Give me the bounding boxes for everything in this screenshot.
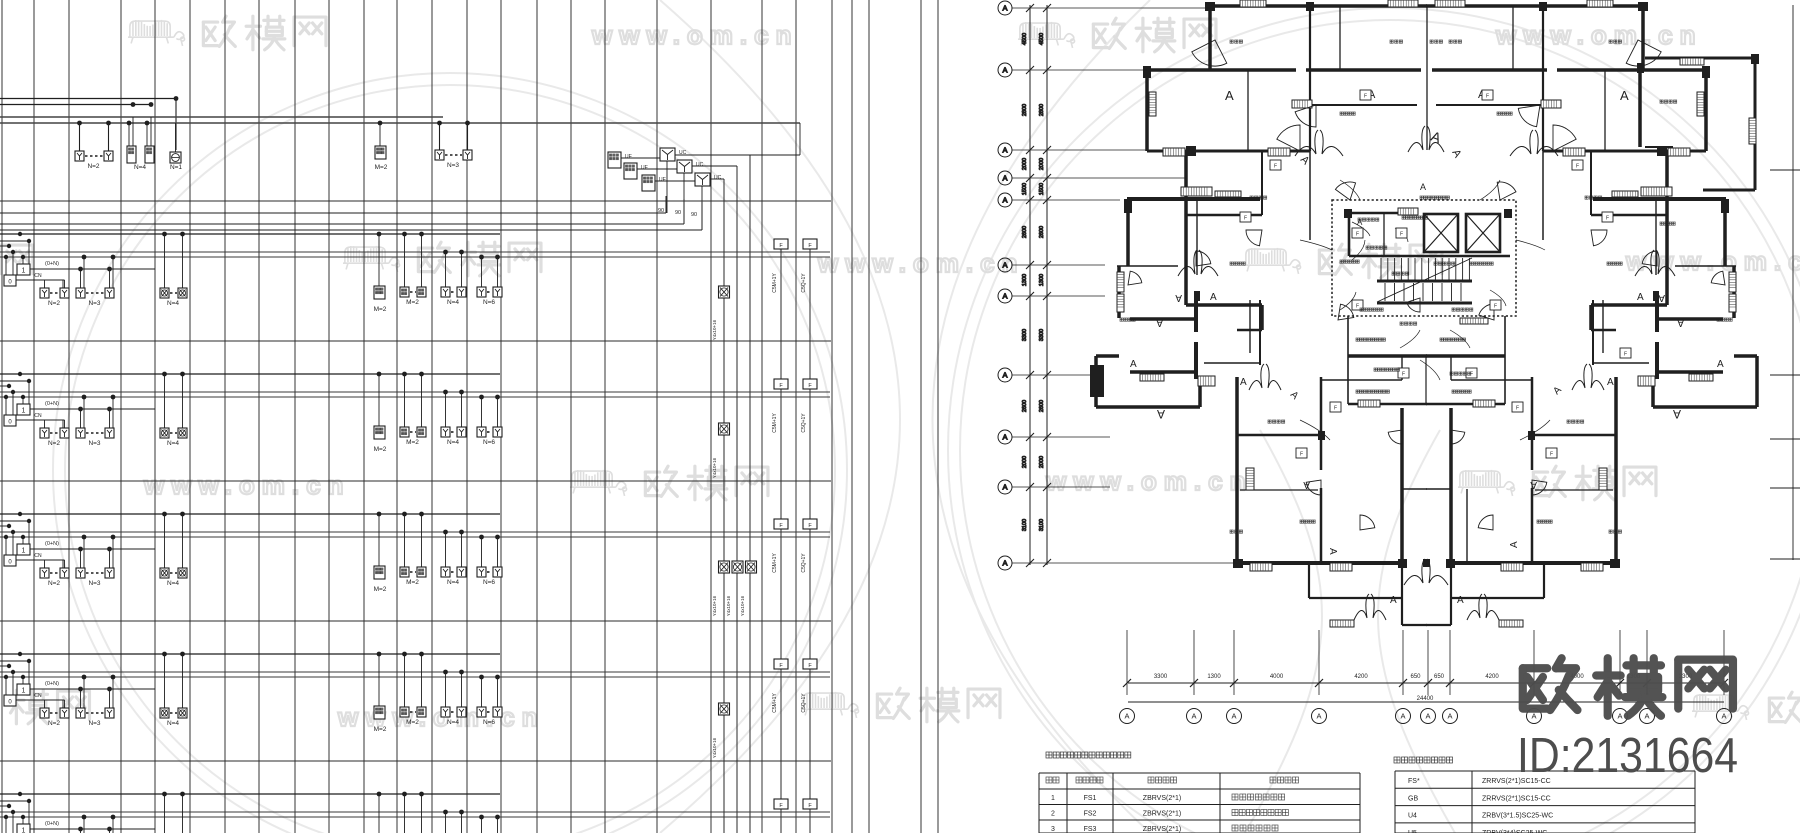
core dashed boundary bbox=[1332, 200, 1516, 316]
svg-text:N=4: N=4 bbox=[134, 164, 146, 171]
svg-text:A: A bbox=[1130, 359, 1137, 370]
svg-text:CN: CN bbox=[34, 693, 42, 699]
watermark circle right bbox=[948, 8, 1800, 838]
svg-text:1300: 1300 bbox=[1039, 274, 1045, 286]
svg-text:C5Q+1Y: C5Q+1Y bbox=[801, 413, 807, 433]
floor 3 device cluster A N=2 bbox=[40, 568, 49, 578]
svg-text:www.om.cn: www.om.cn bbox=[143, 470, 351, 500]
svg-text:A: A bbox=[1400, 712, 1405, 721]
floor 2 bus wires bbox=[0, 373, 500, 375]
annotation leaders core bbox=[1300, 180, 1550, 440]
annotation tags bbox=[1352, 228, 1363, 238]
wall segments bbox=[1096, 6, 1757, 625]
svg-text:N=2: N=2 bbox=[48, 720, 60, 727]
svg-text:1: 1 bbox=[22, 688, 26, 695]
floor 2 feeder panel cluster bbox=[17, 404, 30, 415]
svg-text:www.om.cn: www.om.cn bbox=[1045, 466, 1253, 496]
window sill hatches bbox=[1181, 187, 1212, 196]
svg-text:A: A bbox=[1617, 712, 1622, 721]
floor 1 device cluster C N=4 bbox=[160, 288, 169, 298]
wavy door leaves bbox=[1178, 250, 1197, 276]
svg-text:A: A bbox=[1420, 182, 1426, 192]
floor 2 right devices bbox=[374, 426, 385, 439]
svg-text:F: F bbox=[1550, 452, 1553, 458]
floor0 right device M=2 bbox=[375, 146, 386, 159]
floor 1 device cluster B N=3 bbox=[76, 288, 85, 298]
svg-text:CN: CN bbox=[34, 553, 42, 559]
floor0 right pair N=3 bbox=[435, 150, 444, 160]
svg-text:A: A bbox=[1509, 541, 1520, 548]
watermark tiles row2 bbox=[1, 245, 33, 274]
floor0 lamp device N=1 bbox=[170, 152, 181, 163]
svg-text:FS*: FS* bbox=[1408, 778, 1420, 785]
svg-text:N=3: N=3 bbox=[88, 580, 100, 587]
table left bbox=[1039, 752, 1360, 833]
svg-text:N=2: N=2 bbox=[48, 300, 60, 307]
svg-text:F: F bbox=[1356, 232, 1359, 238]
floor0 device cluster Y-Y N=2 bbox=[75, 151, 84, 161]
svg-text:N=3: N=3 bbox=[447, 162, 459, 169]
svg-text:A: A bbox=[1637, 292, 1644, 303]
svg-text:N=4: N=4 bbox=[167, 580, 179, 587]
floor 4 device cluster B N=3 bbox=[76, 708, 85, 718]
svg-text:F: F bbox=[1624, 352, 1627, 358]
svg-text:1500: 1500 bbox=[1022, 183, 1028, 195]
svg-text:A: A bbox=[1002, 292, 1007, 301]
svg-text:2800: 2800 bbox=[1022, 104, 1028, 116]
tiny plan annotations bbox=[1358, 218, 1361, 221]
floor divider 5 bbox=[0, 760, 831, 762]
svg-text:A: A bbox=[1002, 66, 1007, 75]
svg-text:N=4: N=4 bbox=[447, 439, 459, 446]
svg-text:ZBRVS(2*1): ZBRVS(2*1) bbox=[1143, 811, 1181, 818]
elevator shaft 1 bbox=[1424, 214, 1458, 252]
svg-text:M=2: M=2 bbox=[374, 306, 387, 313]
svg-text:Y4x10+16: Y4x10+16 bbox=[712, 319, 717, 340]
svg-text:90: 90 bbox=[675, 210, 681, 216]
floor divider 3 bbox=[0, 480, 831, 482]
svg-text:A: A bbox=[1447, 712, 1452, 721]
svg-text:3300: 3300 bbox=[1039, 329, 1045, 341]
floor 1 trunk tap boxes bbox=[774, 239, 788, 249]
svg-text:N=1: N=1 bbox=[170, 164, 182, 171]
core small rooms bbox=[1348, 213, 1351, 256]
riser vertical trunk lines bbox=[2, 0, 938, 833]
svg-text:A: A bbox=[1607, 377, 1614, 388]
svg-text:A: A bbox=[1124, 712, 1129, 721]
svg-text:2000: 2000 bbox=[1022, 158, 1028, 170]
svg-text:4000: 4000 bbox=[1270, 674, 1284, 680]
svg-text:N=4: N=4 bbox=[167, 300, 179, 307]
svg-text:A: A bbox=[1303, 479, 1310, 490]
svg-text:4500: 4500 bbox=[1022, 33, 1028, 45]
svg-text:A: A bbox=[1002, 146, 1007, 155]
svg-text:ZBRVS(2*1): ZBRVS(2*1) bbox=[1143, 795, 1181, 802]
floor 3 device cluster B N=3 bbox=[76, 568, 85, 578]
floor 3 bus wires bbox=[0, 513, 500, 515]
svg-text:A: A bbox=[1530, 479, 1537, 490]
svg-text:A: A bbox=[1658, 292, 1665, 303]
svg-text:A: A bbox=[1620, 88, 1629, 103]
floor 3 trunk tap boxes bbox=[774, 519, 788, 529]
riser cable bundle verticals bbox=[675, 154, 750, 156]
floor 1 feeder panel cluster bbox=[17, 264, 30, 275]
svg-text:F: F bbox=[1364, 94, 1367, 100]
svg-text:N=6: N=6 bbox=[483, 439, 495, 446]
svg-text:N=6: N=6 bbox=[483, 579, 495, 586]
floor 2 trunk tap boxes bbox=[774, 379, 788, 389]
watermark tiles row4 bbox=[10, 690, 49, 724]
svg-text:F: F bbox=[1334, 406, 1337, 412]
floor divider 1 bbox=[0, 200, 831, 202]
svg-text:N=6: N=6 bbox=[483, 719, 495, 726]
svg-text:ZRBV(3*1.5)SC25-WC: ZRBV(3*1.5)SC25-WC bbox=[1482, 813, 1553, 820]
svg-text:A: A bbox=[1157, 407, 1165, 421]
column blocks bbox=[1090, 365, 1104, 397]
floor1 riser feeder lines bbox=[0, 212, 666, 214]
svg-text:1: 1 bbox=[22, 828, 26, 834]
table right bbox=[1394, 757, 1695, 837]
svg-text:3100: 3100 bbox=[1022, 519, 1028, 531]
svg-text:FS2: FS2 bbox=[1084, 811, 1097, 818]
svg-text:1: 1 bbox=[22, 268, 26, 275]
svg-text:A: A bbox=[1002, 261, 1007, 270]
svg-text:2600: 2600 bbox=[1039, 400, 1045, 412]
svg-text:A: A bbox=[1002, 559, 1007, 568]
svg-text:1: 1 bbox=[22, 548, 26, 555]
svg-text:3300: 3300 bbox=[1154, 674, 1168, 680]
svg-text:C5M+1Y: C5M+1Y bbox=[772, 553, 778, 573]
floor 1 bus wires bbox=[0, 233, 500, 235]
svg-text:N=4: N=4 bbox=[167, 720, 179, 727]
svg-text:F: F bbox=[1470, 372, 1473, 378]
floor 3 right devices bbox=[374, 566, 385, 579]
floor 2 device cluster A N=2 bbox=[40, 428, 49, 438]
svg-text:FS3: FS3 bbox=[1084, 826, 1097, 833]
svg-text:A: A bbox=[1425, 712, 1430, 721]
svg-text:C5M+1Y: C5M+1Y bbox=[772, 693, 778, 713]
svg-text:A: A bbox=[1002, 174, 1007, 183]
watermark circle left bbox=[53, 73, 847, 838]
svg-text:A: A bbox=[1225, 88, 1234, 103]
svg-text:N=6: N=6 bbox=[483, 299, 495, 306]
svg-text:C5Q+1Y: C5Q+1Y bbox=[801, 553, 807, 573]
floor 5 trunk tap boxes bbox=[774, 799, 788, 809]
svg-text:M=2: M=2 bbox=[375, 164, 388, 171]
svg-text:F: F bbox=[1356, 304, 1359, 310]
svg-text:M=2: M=2 bbox=[374, 446, 387, 453]
svg-text:A: A bbox=[1191, 712, 1196, 721]
floor 4 bus wires bbox=[0, 653, 500, 655]
svg-text:4200: 4200 bbox=[1485, 674, 1499, 680]
stair treads bbox=[1380, 258, 1382, 280]
svg-text:1300: 1300 bbox=[1207, 674, 1221, 680]
svg-text:CN: CN bbox=[34, 273, 42, 279]
top middle junction cluster bbox=[608, 123, 800, 230]
svg-text:C5M+1Y: C5M+1Y bbox=[772, 273, 778, 293]
svg-text:A: A bbox=[1002, 371, 1007, 380]
floor 1 device cluster A N=2 bbox=[40, 288, 49, 298]
svg-text:GB: GB bbox=[1408, 795, 1418, 802]
svg-text:2: 2 bbox=[1051, 811, 1055, 818]
left grid bubbles column bbox=[998, 1, 1237, 570]
svg-text:Y4x10+16: Y4x10+16 bbox=[740, 595, 745, 616]
svg-text:A: A bbox=[1210, 292, 1217, 303]
svg-text:A: A bbox=[1390, 595, 1397, 606]
svg-text:A: A bbox=[1677, 317, 1684, 328]
svg-text:650: 650 bbox=[1410, 674, 1421, 680]
svg-text:M=2: M=2 bbox=[374, 726, 387, 733]
floor 2 device cluster B N=3 bbox=[76, 428, 85, 438]
svg-text:CN: CN bbox=[34, 413, 42, 419]
floor divider 4 bbox=[0, 620, 831, 622]
floor 5 feeder panel cluster bbox=[17, 824, 30, 835]
svg-text:UE: UE bbox=[641, 165, 649, 171]
svg-text:2600: 2600 bbox=[1039, 226, 1045, 238]
svg-text:FS1: FS1 bbox=[1084, 795, 1097, 802]
svg-text:2800: 2800 bbox=[1039, 104, 1045, 116]
svg-text:650: 650 bbox=[1434, 674, 1445, 680]
svg-text:UE: UE bbox=[659, 177, 667, 183]
svg-text:(0+N): (0+N) bbox=[45, 261, 59, 267]
svg-text:F: F bbox=[1402, 372, 1405, 378]
svg-text:ID:2131664: ID:2131664 bbox=[1517, 729, 1738, 783]
svg-text:90: 90 bbox=[691, 212, 697, 218]
svg-text:A: A bbox=[1002, 433, 1007, 442]
svg-text:A: A bbox=[1644, 712, 1649, 721]
svg-text:A: A bbox=[1316, 712, 1321, 721]
svg-text:A: A bbox=[1721, 712, 1726, 721]
svg-text:N=4: N=4 bbox=[447, 579, 459, 586]
floor 4 device cluster C N=4 bbox=[160, 708, 169, 718]
svg-text:www.om.cn: www.om.cn bbox=[591, 20, 799, 50]
svg-text:A: A bbox=[1717, 359, 1724, 370]
watermark tiles row1 bbox=[128, 20, 185, 46]
svg-text:N=3: N=3 bbox=[88, 440, 100, 447]
svg-text:F: F bbox=[1516, 406, 1519, 412]
floor divider 2 bbox=[0, 340, 831, 342]
svg-text:1: 1 bbox=[1051, 795, 1055, 802]
svg-text:M=2: M=2 bbox=[406, 299, 419, 306]
svg-text:2600: 2600 bbox=[1022, 400, 1028, 412]
svg-text:1500: 1500 bbox=[1039, 183, 1045, 195]
svg-text:M=2: M=2 bbox=[406, 439, 419, 446]
watermark swoosh curves bbox=[660, 0, 1455, 833]
svg-text:M=2: M=2 bbox=[406, 719, 419, 726]
floor 1 right devices bbox=[374, 286, 385, 299]
svg-text:N=2: N=2 bbox=[48, 580, 60, 587]
svg-text:C5Q+1Y: C5Q+1Y bbox=[801, 693, 807, 713]
floor 4 trunk tap boxes bbox=[774, 659, 788, 669]
svg-text:F: F bbox=[1274, 164, 1277, 170]
svg-text:UC: UC bbox=[696, 162, 704, 168]
svg-text:A: A bbox=[1673, 407, 1681, 421]
svg-text:N=3: N=3 bbox=[88, 300, 100, 307]
svg-text:(0+N): (0+N) bbox=[45, 821, 59, 827]
svg-text:(0+N): (0+N) bbox=[45, 681, 59, 687]
svg-text:(0+N): (0+N) bbox=[45, 401, 59, 407]
svg-text:F: F bbox=[1576, 164, 1579, 170]
svg-text:Y4x10+16: Y4x10+16 bbox=[712, 457, 717, 478]
svg-text:A: A bbox=[1002, 483, 1007, 492]
svg-text:UE: UE bbox=[625, 154, 633, 160]
svg-text:F: F bbox=[1300, 452, 1303, 458]
floor 3 device cluster C N=4 bbox=[160, 568, 169, 578]
svg-text:www.om.cn: www.om.cn bbox=[1495, 20, 1703, 50]
svg-text:2600: 2600 bbox=[1022, 226, 1028, 238]
svg-text:Y4x10+16: Y4x10+16 bbox=[726, 595, 731, 616]
svg-text:4200: 4200 bbox=[1354, 674, 1368, 680]
svg-text:A: A bbox=[1240, 377, 1247, 388]
svg-text:ZRRVS(2*1)SC15-CC: ZRRVS(2*1)SC15-CC bbox=[1482, 795, 1551, 802]
floor0 fuse devices N=4 bbox=[127, 146, 136, 163]
svg-text:F: F bbox=[1244, 216, 1247, 222]
door arcs bbox=[1192, 40, 1227, 66]
svg-text:U4: U4 bbox=[1408, 813, 1417, 820]
svg-text:1300: 1300 bbox=[1022, 274, 1028, 286]
svg-text:F: F bbox=[1486, 94, 1489, 100]
svg-text:A: A bbox=[1002, 196, 1007, 205]
svg-text:N=2: N=2 bbox=[48, 440, 60, 447]
svg-text:A: A bbox=[1327, 548, 1338, 555]
svg-text:A: A bbox=[1175, 292, 1182, 303]
floor 4 feeder panel cluster bbox=[17, 684, 30, 695]
svg-text:C5Q+1Y: C5Q+1Y bbox=[801, 273, 807, 293]
svg-text:F: F bbox=[1400, 232, 1403, 238]
elevator shaft 2 bbox=[1466, 214, 1500, 252]
svg-text:2000: 2000 bbox=[1022, 456, 1028, 468]
svg-text:C5M+1Y: C5M+1Y bbox=[772, 413, 778, 433]
svg-text:1: 1 bbox=[22, 408, 26, 415]
svg-text:N=3: N=3 bbox=[88, 720, 100, 727]
floor 4 right devices bbox=[374, 706, 385, 719]
svg-text:ZBRVS(2*1): ZBRVS(2*1) bbox=[1143, 826, 1181, 833]
svg-text:N=4: N=4 bbox=[167, 440, 179, 447]
svg-text:A: A bbox=[1002, 4, 1007, 13]
svg-text:3100: 3100 bbox=[1039, 519, 1045, 531]
svg-text:M=2: M=2 bbox=[374, 586, 387, 593]
svg-text:N=2: N=2 bbox=[87, 163, 99, 170]
svg-text:UC: UC bbox=[714, 175, 722, 181]
big watermark 欧模网 bbox=[1523, 658, 1578, 710]
svg-text:A: A bbox=[1457, 595, 1464, 606]
svg-text:A: A bbox=[1231, 712, 1236, 721]
right margin dimension ticks bbox=[1770, 5, 1800, 560]
top bus wires bbox=[0, 96, 800, 150]
svg-text:2000: 2000 bbox=[1039, 158, 1045, 170]
svg-text:F: F bbox=[1494, 304, 1497, 310]
svg-text:A: A bbox=[1531, 712, 1536, 721]
svg-text:3: 3 bbox=[1051, 826, 1055, 833]
svg-text:A: A bbox=[1156, 317, 1163, 328]
svg-text:M=2: M=2 bbox=[406, 579, 419, 586]
svg-text:(0+N): (0+N) bbox=[45, 541, 59, 547]
svg-text:N=4: N=4 bbox=[447, 299, 459, 306]
svg-text:3300: 3300 bbox=[1022, 329, 1028, 341]
bottom dimension line bbox=[1120, 630, 1732, 724]
svg-text:N=4: N=4 bbox=[447, 719, 459, 726]
floor 5 bus wires bbox=[0, 793, 500, 795]
far right room block bbox=[1645, 57, 1755, 60]
riser column devices bbox=[719, 286, 730, 298]
svg-text:Y4x10+16: Y4x10+16 bbox=[712, 595, 717, 616]
svg-text:24400: 24400 bbox=[1417, 696, 1434, 702]
riser tap stems bbox=[780, 248, 782, 833]
svg-text:F: F bbox=[1606, 216, 1609, 222]
floor 4 device cluster A N=2 bbox=[40, 708, 49, 718]
svg-text:4500: 4500 bbox=[1039, 33, 1045, 45]
floor 2 device cluster C N=4 bbox=[160, 428, 169, 438]
floor 3 feeder panel cluster bbox=[17, 544, 30, 555]
svg-text:2000: 2000 bbox=[1039, 456, 1045, 468]
svg-text:Y4x10+16: Y4x10+16 bbox=[712, 737, 717, 758]
